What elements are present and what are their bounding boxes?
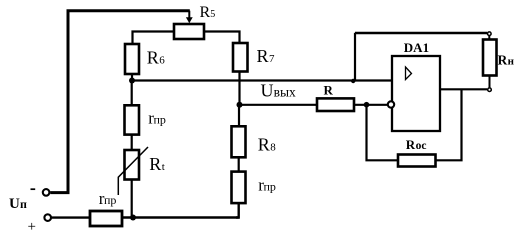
svg-text:ос: ос bbox=[416, 140, 427, 152]
load Rn top terminal bbox=[488, 32, 492, 36]
wire r_pr to Rt bbox=[131, 135, 133, 150]
svg-text:+: + bbox=[28, 219, 36, 235]
svg-text:DA1: DA1 bbox=[404, 40, 429, 55]
inverting input bubble bbox=[388, 101, 394, 107]
label Uvyh bbox=[261, 81, 297, 101]
load Rn bottom terminal bbox=[488, 88, 492, 92]
op-amp DA1 box bbox=[392, 56, 440, 131]
label plus sign bbox=[28, 219, 36, 235]
svg-text:8: 8 bbox=[270, 142, 276, 154]
label Rn bbox=[498, 52, 515, 67]
node C (bottom rail) bbox=[130, 215, 136, 221]
svg-text:пр: пр bbox=[154, 113, 166, 127]
svg-text:R: R bbox=[498, 52, 508, 67]
label R8 bbox=[258, 135, 277, 155]
label Rt bbox=[149, 154, 165, 174]
wire R6 bottom lead bbox=[131, 74, 133, 81]
node E (on non-inverting line) bbox=[351, 79, 355, 83]
label R5 bbox=[200, 4, 216, 21]
bottom rail wire bbox=[122, 216, 239, 218]
svg-text:7: 7 bbox=[269, 53, 275, 65]
svg-text:5: 5 bbox=[210, 9, 215, 20]
wire top line to load Rn bbox=[355, 32, 487, 34]
svg-text:R: R bbox=[147, 48, 159, 68]
resistor R6 bbox=[125, 44, 139, 74]
wire R7 bottom lead down to node B bbox=[238, 72, 240, 106]
svg-text:6: 6 bbox=[159, 55, 165, 67]
label R (series resistor, bold) bbox=[324, 83, 334, 98]
wire left column node A to r_pr top bbox=[131, 83, 133, 106]
wire from minus terminal up and across top to R5 wiper bbox=[50, 11, 190, 193]
label minus sign bbox=[31, 188, 36, 190]
label R6 bbox=[147, 48, 166, 68]
svg-text:пр: пр bbox=[104, 193, 116, 207]
svg-text:t: t bbox=[162, 161, 165, 173]
label r_pr right bbox=[258, 175, 276, 194]
svg-text:U: U bbox=[9, 196, 20, 212]
resistor r_pr (horizontal, supply) bbox=[90, 211, 122, 226]
wire Rn top lead bbox=[488, 36, 490, 40]
terminal minus bbox=[43, 189, 50, 196]
wire Rt bottom to bottom rail bbox=[131, 180, 133, 218]
svg-text:R: R bbox=[257, 46, 269, 66]
svg-text:R: R bbox=[406, 137, 416, 152]
resistor r_pr (right column) bbox=[232, 172, 246, 204]
svg-text:R: R bbox=[149, 154, 161, 174]
label DA1 bbox=[404, 40, 429, 55]
resistor Rn bbox=[483, 40, 497, 76]
wire plus terminal to r_pr bbox=[52, 216, 91, 218]
resistor r_pr (left column) bbox=[125, 105, 140, 134]
wire node B to resistor R bbox=[240, 104, 318, 106]
wire Roc right up to output line bbox=[436, 89, 462, 160]
svg-text:R: R bbox=[200, 4, 211, 21]
node B (Uvyh node) bbox=[237, 102, 243, 108]
resistor Roc bbox=[398, 155, 436, 167]
label Roc bbox=[406, 137, 427, 152]
wire bridge output line to op-amp non-inverting input bbox=[132, 79, 392, 81]
label r_pr left bbox=[148, 109, 166, 128]
op-amp triangle symbol bbox=[406, 67, 412, 80]
wire R5 right lead to R7 top bbox=[204, 32, 240, 44]
svg-text:н: н bbox=[508, 55, 515, 67]
svg-text:вых: вых bbox=[274, 85, 296, 100]
wire R to inverting input bubble bbox=[354, 104, 387, 106]
svg-text:R: R bbox=[324, 83, 334, 98]
resistor R5 bbox=[174, 24, 204, 39]
wire R5 left lead to R6 top bbox=[133, 32, 175, 45]
wiper arrow into R5 bbox=[186, 11, 193, 24]
wire feedback down from node D bbox=[367, 105, 399, 161]
resistor R8 bbox=[232, 126, 246, 157]
resistor Rt (thermistor) bbox=[118, 147, 148, 195]
wire Rn bottom lead bbox=[489, 76, 491, 88]
wire op-amp output to Rn bottom terminal bbox=[440, 88, 487, 90]
wire R8 to r_pr right column bbox=[238, 157, 240, 172]
svg-text:R: R bbox=[258, 135, 270, 155]
svg-text:пр: пр bbox=[264, 179, 276, 193]
wire r_pr right column to bottom rail bbox=[236, 203, 239, 217]
svg-text:п: п bbox=[20, 197, 27, 211]
resistor R7 bbox=[233, 43, 248, 72]
label R7 bbox=[257, 46, 276, 66]
resistor R bbox=[317, 98, 354, 111]
label r_pr bottom bbox=[99, 189, 117, 208]
wire vertical drop to bridge output line bbox=[354, 33, 356, 81]
node D (feedback junction) bbox=[364, 102, 370, 108]
source label Up bbox=[9, 196, 27, 212]
svg-text:U: U bbox=[261, 81, 274, 101]
node A (below R6) bbox=[129, 78, 135, 84]
wire node B down to R8 bbox=[238, 107, 240, 127]
terminal plus bbox=[44, 214, 51, 221]
